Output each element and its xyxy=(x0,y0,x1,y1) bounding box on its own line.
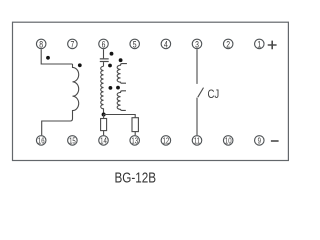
capacitor C plate bottom xyxy=(100,61,109,63)
plus sign at terminal 1 xyxy=(268,41,277,50)
polarity dot above W2 xyxy=(119,58,123,62)
wire junction to resistor R1 xyxy=(103,115,105,119)
terminal 14 xyxy=(99,136,109,146)
terminal 13 xyxy=(130,136,140,146)
terminal 4 xyxy=(161,39,171,49)
svg-text:7: 7 xyxy=(70,39,74,49)
polarity dot mid winding W1 xyxy=(109,86,113,90)
wire R2 to terminal 13 xyxy=(134,132,136,136)
wire contact to terminal 11 xyxy=(196,98,198,136)
svg-text:9: 9 xyxy=(258,138,261,146)
resistor R1 xyxy=(101,119,107,131)
wire R1 to terminal 14 xyxy=(103,131,105,136)
wire from terminal 8 down and right xyxy=(41,49,72,64)
minus sign at terminal 9 xyxy=(271,140,279,142)
node dot near terminal 8 wire xyxy=(46,56,50,60)
svg-text:11: 11 xyxy=(194,138,200,146)
wire junction to right resistor branch xyxy=(104,115,136,118)
capacitor C plate top xyxy=(100,58,109,60)
svg-text:CJ: CJ xyxy=(208,88,220,101)
junction node dot xyxy=(102,113,106,117)
polarity dot below capacitor xyxy=(108,64,112,68)
resistor R2 xyxy=(132,118,138,132)
wire capacitor to winding W1 xyxy=(103,62,105,66)
polarity dot of coil L1 xyxy=(78,63,82,67)
terminal 16 xyxy=(36,136,46,146)
svg-text:8: 8 xyxy=(39,39,43,49)
svg-text:2: 2 xyxy=(226,39,230,49)
terminal 7 xyxy=(68,39,78,49)
coil L1 (winding 8-16) xyxy=(42,64,79,135)
svg-text:15: 15 xyxy=(69,138,76,146)
svg-text:16: 16 xyxy=(38,138,45,146)
wire terminal 3 to contact xyxy=(196,49,198,84)
terminal 11 xyxy=(192,136,202,146)
wire from terminal 6 to capacitor xyxy=(103,49,105,58)
polarity dot above W3 xyxy=(116,86,120,90)
terminal 9 xyxy=(255,136,265,146)
terminal 12 xyxy=(161,136,171,146)
secondary winding W3 lower xyxy=(117,91,126,111)
terminal 6 xyxy=(99,39,109,49)
svg-text:13: 13 xyxy=(131,138,138,146)
terminal 2 xyxy=(223,39,233,49)
svg-text:10: 10 xyxy=(225,138,232,146)
terminal 10 xyxy=(223,136,233,146)
svg-text:5: 5 xyxy=(133,39,137,49)
terminal 1 xyxy=(255,39,265,49)
terminal 15 xyxy=(68,136,78,146)
svg-text:3: 3 xyxy=(195,39,199,49)
winding W1 (primary 6-14) xyxy=(101,66,104,114)
outer case border xyxy=(13,22,289,160)
terminal 8 xyxy=(36,39,46,49)
terminal 5 xyxy=(130,39,140,49)
terminal 3 xyxy=(192,39,202,49)
svg-text:14: 14 xyxy=(100,138,107,146)
secondary winding W2 upper xyxy=(117,64,127,84)
svg-text:4: 4 xyxy=(164,39,168,49)
svg-text:BG-12B: BG-12B xyxy=(115,169,157,186)
svg-text:1: 1 xyxy=(257,39,261,49)
svg-text:6: 6 xyxy=(102,39,106,49)
svg-text:12: 12 xyxy=(163,138,170,146)
contact CJ blade xyxy=(198,88,204,98)
node dot right of wire 6 xyxy=(110,52,114,56)
